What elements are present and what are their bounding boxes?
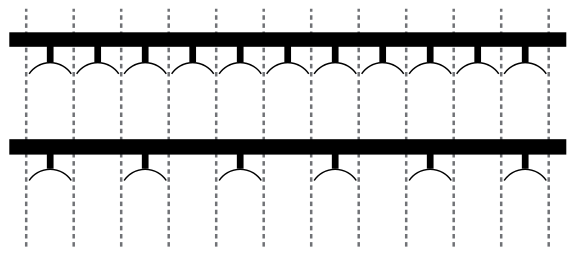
top winding tap 3 (142, 44, 149, 62)
bottom coil turn 3 (219, 169, 261, 180)
bottom coil turn 4 (314, 169, 356, 180)
top winding tap 8 (379, 44, 386, 62)
bottom coil turn 6 (504, 169, 546, 180)
top winding tap 11 (522, 44, 529, 62)
slot axis line 12 (dashed) (547, 9, 550, 247)
top coil turn 3 (124, 63, 166, 74)
top coil turn 4 (172, 63, 214, 74)
slot axis line 6 (dashed) (262, 9, 265, 247)
top coil turn 2 (77, 63, 119, 74)
slot axis line 11 (dashed) (500, 9, 503, 247)
top winding tap 10 (474, 44, 481, 62)
bottom bus bar (9, 139, 566, 154)
top coil turn 8 (362, 63, 404, 74)
top coil turn 9 (409, 63, 451, 74)
bottom coil turn 5 (409, 169, 451, 180)
top coil turn 7 (314, 63, 356, 74)
top coil turn 5 (219, 63, 261, 74)
slot axis line 9 (dashed) (405, 9, 408, 247)
slot axis line 2 (dashed) (72, 9, 75, 247)
top winding tap 6 (284, 44, 291, 62)
top winding tap 7 (332, 44, 339, 62)
slot axis line 8 (dashed) (357, 9, 360, 247)
top coil turn 1 (29, 63, 71, 74)
top winding tap 5 (237, 44, 244, 62)
top winding tap 2 (94, 44, 101, 62)
bottom winding tap 3 (237, 151, 244, 169)
top coil turn 11 (504, 63, 546, 74)
slot axis line 5 (dashed) (215, 9, 218, 247)
top coil turn 6 (267, 63, 309, 74)
bottom winding tap 6 (522, 151, 529, 169)
bottom winding tap 5 (427, 151, 434, 169)
top winding tap 9 (427, 44, 434, 62)
slot axis line 7 (dashed) (310, 9, 313, 247)
top coil turn 10 (457, 63, 499, 74)
bottom winding tap 1 (47, 151, 54, 169)
top winding tap 4 (189, 44, 196, 62)
bottom coil turn 1 (29, 169, 71, 180)
slot axis line 4 (dashed) (167, 9, 170, 247)
top winding tap 1 (47, 44, 54, 62)
bottom coil turn 2 (124, 169, 166, 180)
slot axis line 3 (dashed) (120, 9, 123, 247)
slot axis line 1 (dashed) (25, 9, 28, 247)
top bus bar (9, 32, 566, 47)
bottom winding tap 2 (142, 151, 149, 169)
bottom winding tap 4 (332, 151, 339, 169)
slot axis line 10 (dashed) (452, 9, 455, 247)
